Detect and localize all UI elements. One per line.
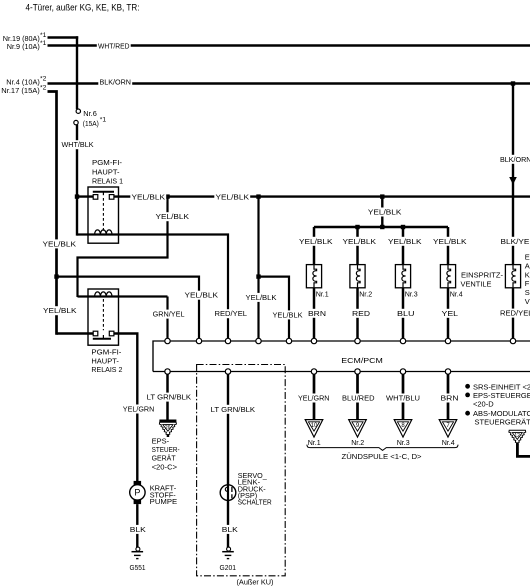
relay 2 coil winding	[95, 292, 112, 297]
label RED/YEL relay1 coil	[213, 309, 248, 318]
injector EINSPRITZVENTIL Nr.2	[350, 265, 365, 288]
svg-text:K: K	[525, 270, 530, 279]
svg-text:WHT/BLK: WHT/BLK	[62, 140, 94, 149]
wire from fuse Nr.19 to fuse Nr.6 feed	[48, 36, 79, 38]
svg-text:STEUERGERÄT <4: STEUERGERÄT <4	[475, 417, 530, 426]
svg-text:F: F	[525, 279, 530, 288]
label BLK/ORN on right drop	[499, 155, 530, 164]
wire YEL/BLK branch to ECM at x=289	[259, 277, 290, 341]
label LT GRN/BLK to EPS	[145, 393, 192, 402]
svg-text:LT GRN/BLK: LT GRN/BLK	[147, 393, 192, 402]
relay 1 armature dashed link	[102, 198, 104, 232]
label BLU injector 3	[396, 309, 416, 318]
junction branch at (258,277)	[256, 274, 260, 278]
svg-text:S: S	[525, 288, 530, 297]
svg-text:WHT/BLU: WHT/BLU	[386, 394, 420, 403]
svg-text:HAUPT-: HAUPT-	[91, 356, 119, 365]
junction WHT/BLK feed to relay 1 contact	[75, 194, 79, 198]
wire BLU injector Nr.3 to ECM	[402, 288, 405, 341]
svg-text:YEL/GRN: YEL/GRN	[298, 394, 330, 403]
svg-text:SCHALTER: SCHALTER	[238, 498, 273, 507]
wire WHT/BLK from fuse Nr.6 to PGM-FI relay 1	[76, 125, 78, 236]
wire from fuse Nr.17 down left side (YEL/BLK)	[48, 92, 57, 335]
label (Außer KU)	[233, 578, 277, 588]
svg-text:G551: G551	[130, 563, 146, 572]
label YEL/BLK x289	[271, 310, 303, 319]
label YEL/BLK x199	[183, 291, 219, 300]
relay 1 coil winding	[95, 230, 112, 235]
injector EINSPRITZVENTIL far right	[505, 265, 520, 288]
wire zigzag from YEL/BLK main down-left to relay 2 coil	[78, 197, 168, 297]
svg-text:GRN/YEL: GRN/YEL	[153, 310, 185, 319]
svg-text:RED/YEL: RED/YEL	[215, 309, 248, 318]
wire from triangle 12 to right edge	[517, 443, 530, 456]
svg-text:BLU/RED: BLU/RED	[342, 394, 375, 403]
svg-text:*2: *2	[40, 76, 47, 83]
ground G551	[136, 547, 138, 549]
fuse Nr.6 (15A) vertical feed wire upper	[76, 36, 78, 109]
svg-text:YEL/BLK: YEL/BLK	[433, 237, 467, 246]
wire YEL/BLK main line from relay 1 contact output to right edge	[114, 195, 530, 197]
svg-text:Nr.4: Nr.4	[442, 438, 455, 447]
relay 2 contact bar	[93, 338, 111, 340]
injector EINSPRITZVENTIL Nr.1	[306, 265, 321, 288]
label WHT/BLU ignition 3	[385, 394, 421, 403]
label BLK/ORN	[98, 78, 132, 87]
junction YEL/BLK main at x=258	[256, 194, 260, 198]
relay PGM-FI-HAUPT-RELAIS 1 box	[88, 187, 119, 243]
svg-text:YEL/BLK: YEL/BLK	[246, 293, 277, 302]
junction YEL/BLK main at injector feed	[380, 194, 384, 198]
svg-text:YEL/BLK: YEL/BLK	[132, 193, 166, 202]
svg-text:P: P	[134, 488, 140, 498]
svg-text:RELAIS 2: RELAIS 2	[91, 365, 122, 374]
svg-text:YEL/BLK: YEL/BLK	[299, 237, 333, 246]
bullet ABS-MODULATOR/STEUERGERÄT	[465, 411, 470, 416]
fuel pump KRAFTSTOFFPUMPE	[134, 481, 142, 485]
label GRN/YEL	[151, 310, 185, 319]
svg-text:<20-D: <20-D	[473, 399, 494, 408]
wire relay 1 coil row to ECM RED/YEL drop	[77, 235, 228, 342]
svg-text:YEL/BLK: YEL/BLK	[43, 306, 77, 315]
svg-text:10: 10	[311, 423, 318, 429]
svg-text:Nr.2: Nr.2	[359, 289, 372, 298]
wire YEL/BLK to injector Nr.4	[447, 227, 450, 265]
svg-text:BLK/YEL: BLK/YEL	[501, 237, 530, 246]
svg-text:(15A): (15A)	[83, 119, 99, 128]
label YEL/BLK on left vertical	[41, 239, 77, 248]
svg-text:(Außer KU): (Außer KU)	[237, 578, 274, 587]
wire YEL/BLK to injector Nr.2	[356, 227, 359, 265]
label BLK pump ground wire	[129, 525, 147, 534]
svg-text:YEL/BLK: YEL/BLK	[343, 237, 377, 246]
svg-text:YEL/GRN: YEL/GRN	[123, 405, 155, 414]
svg-text:BRN: BRN	[308, 309, 326, 318]
ECM bottom row pin circles	[165, 369, 170, 374]
label RED/YEL on right drop	[499, 309, 530, 318]
bullet SRS-EINHEIT	[465, 384, 470, 389]
svg-text:Nr.9 (10A): Nr.9 (10A)	[7, 42, 40, 51]
wire YEL injector Nr.4 to ECM	[447, 288, 450, 341]
wire BRN injector Nr.1 to ECM	[313, 288, 316, 341]
svg-text:ZÜNDSPULE <1-C, D>: ZÜNDSPULE <1-C, D>	[342, 452, 423, 461]
ECM/PCM box	[153, 341, 530, 372]
brace ZÜNDSPULE group	[307, 445, 458, 451]
label WHT/BLK	[60, 140, 94, 149]
label YEL/BLK x258	[244, 293, 277, 302]
wire YEL/BLK injector feed drop	[381, 197, 383, 227]
junction on left YEL/BLK vertical	[54, 274, 58, 278]
wire ECM to ignition coil Nr.2	[356, 372, 359, 420]
label BRN ignition 4	[439, 394, 459, 403]
svg-text:Nr.4 (10A): Nr.4 (10A)	[6, 77, 40, 86]
svg-text:RED/YEL: RED/YEL	[500, 309, 530, 318]
PSP servo switch symbol	[220, 485, 236, 501]
label YEL/GRN ignition 1	[297, 394, 331, 403]
EPS connector triangle 26	[159, 419, 176, 422]
label BLK PSP ground wire	[221, 525, 239, 534]
label WHT/RED	[97, 41, 131, 50]
svg-text:YEL/BLK: YEL/BLK	[156, 212, 190, 221]
wire ECM to ignition coil Nr.3	[402, 372, 405, 420]
svg-text:HAUPT-: HAUPT-	[92, 167, 120, 176]
ignition coil connector triangle 7 Nr.4	[439, 420, 457, 438]
label YEL injector 4	[440, 309, 459, 318]
svg-text:G201: G201	[220, 563, 237, 572]
svg-text:4-Türer, außer KG, KE, KB, TR:: 4-Türer, außer KG, KE, KB, TR:	[26, 2, 140, 12]
svg-text:Nr.17 (15A): Nr.17 (15A)	[1, 86, 40, 95]
relay 2 contact terminal squares	[93, 331, 98, 336]
svg-text:*1: *1	[100, 116, 107, 123]
wire YEL/BLK drop to ECM at x=258	[257, 197, 259, 341]
svg-text:Nr.1: Nr.1	[316, 289, 329, 298]
wire relay 2 coil row	[78, 295, 168, 297]
junction BLK/ORN to right drop	[511, 81, 515, 85]
label YEL/GRN to pump	[122, 405, 156, 414]
svg-text:*1: *1	[40, 40, 47, 47]
relay 1 contact bar	[93, 191, 114, 193]
svg-text:12: 12	[514, 433, 520, 439]
svg-text:ECM/PCM: ECM/PCM	[341, 356, 383, 365]
relay PGM-FI-HAUPT-RELAIS 2 box	[88, 289, 119, 345]
label YEL/BLK on main line	[214, 193, 250, 202]
wire RED injector Nr.2 to ECM	[356, 288, 359, 341]
wire YEL/BLK branch from left vertical to ECM	[57, 277, 200, 341]
injector EINSPRITZVENTIL Nr.3	[395, 265, 410, 288]
ignition coil connector triangle 8 Nr.3	[394, 420, 412, 438]
wire YEL/BLK into relay 2 contact	[57, 332, 94, 334]
svg-text:E: E	[525, 253, 530, 262]
svg-text:YEL/BLK: YEL/BLK	[388, 237, 422, 246]
ground G201	[227, 547, 229, 549]
svg-text:YEL/BLK: YEL/BLK	[368, 208, 402, 217]
wire LT GRN/BLK ECM to EPS triangle	[166, 372, 169, 421]
svg-text:YEL: YEL	[442, 309, 459, 318]
label BLU/RED ignition 2	[341, 394, 376, 403]
svg-text:BLK: BLK	[222, 525, 238, 534]
svg-text:RED: RED	[352, 309, 371, 318]
svg-text:*1: *1	[40, 32, 47, 39]
label YEL/BLK on relay2 contact feed	[42, 306, 78, 315]
svg-text:YEL/BLK: YEL/BLK	[273, 310, 303, 319]
arrow direction marker on right drop	[510, 178, 516, 184]
relay 2 armature dashed link	[102, 299, 104, 330]
wire YEL/BLK to injector Nr.1	[313, 227, 316, 265]
wire injector supply bus	[314, 226, 448, 229]
svg-text:Nr.3: Nr.3	[405, 289, 418, 298]
svg-text:BRN: BRN	[441, 394, 459, 403]
wire LT GRN/BLK ECM to PSP switch	[227, 372, 229, 486]
svg-text:EINSPRITZ-: EINSPRITZ-	[461, 271, 504, 280]
label YEL/BLK injector feed	[367, 208, 403, 217]
label BLK/YEL	[499, 237, 530, 246]
label YEL/BLK after relay 1	[130, 193, 166, 202]
connector triangle 12 to control units	[509, 430, 526, 443]
svg-text:BLK/ORN: BLK/ORN	[100, 78, 132, 87]
dash-dot option frame (Außer KU)	[197, 365, 286, 576]
svg-text:*2: *2	[40, 84, 47, 91]
relay 1 contact terminal squares	[93, 195, 98, 200]
fuse Nr.6 symbol	[76, 109, 80, 113]
wire relay 1 contact feed at junction	[77, 195, 93, 197]
svg-text:PUMPE: PUMPE	[150, 497, 178, 506]
bullet EPS-STEUERGERÄT 20-D	[465, 393, 470, 398]
ignition coil connector triangle 10 Nr.1	[305, 420, 323, 438]
svg-text:BLK: BLK	[130, 525, 146, 534]
svg-text:V: V	[525, 297, 530, 306]
wire ECM to ignition coil Nr.4	[447, 372, 450, 420]
labels YEL/BLK above injectors	[298, 237, 334, 246]
svg-text:Nr.1: Nr.1	[308, 438, 321, 447]
wire WHT/RED from fuse Nr.9 to right edge	[48, 44, 530, 46]
svg-text:Nr.2: Nr.2	[351, 438, 364, 447]
svg-text:YEL/BLK: YEL/BLK	[43, 239, 77, 248]
ignition coil connector triangle 9 Nr.2	[349, 420, 367, 438]
junction YEL/BLK main at relay 2 coil drop	[165, 194, 169, 198]
svg-text:PGM-FI-: PGM-FI-	[91, 348, 122, 357]
svg-text:Nr.6: Nr.6	[83, 109, 97, 118]
svg-text:RELAIS 1: RELAIS 1	[92, 177, 123, 186]
svg-text:<20-C>: <20-C>	[152, 462, 178, 471]
svg-text:YEL/BLK: YEL/BLK	[185, 291, 219, 300]
junction injector bus taps	[355, 225, 359, 229]
wire YEL/BLK to injector Nr.3	[402, 227, 405, 265]
svg-text:26: 26	[165, 425, 171, 431]
wire BLK/ORN - BLK/YEL right drop to ECM	[512, 84, 514, 342]
svg-text:VENTILE: VENTILE	[461, 280, 492, 289]
svg-text:YEL/BLK: YEL/BLK	[216, 193, 250, 202]
label YEL/BLK on relay2-coil drop	[154, 212, 190, 221]
wire BLK/ORN from fuse Nr.4 to right edge	[48, 82, 530, 84]
label BRN injector 1	[307, 309, 327, 318]
injector EINSPRITZVENTIL Nr.4	[440, 265, 455, 288]
svg-text:PGM-FI-: PGM-FI-	[92, 158, 123, 167]
wire BLK PSP switch to ground	[227, 500, 229, 548]
wire GRN/YEL relay 2 coil output to ECM	[166, 297, 168, 342]
label RED injector 2	[351, 309, 371, 318]
wire BLK fuel pump to ground	[136, 504, 138, 548]
label LT GRN/BLK to PSP	[209, 405, 256, 414]
svg-text:A: A	[525, 261, 530, 270]
svg-text:BLK/ORN: BLK/ORN	[500, 155, 530, 164]
svg-text:Nr.3: Nr.3	[397, 438, 410, 447]
wire relay 2 contact output to fuel pump	[114, 334, 137, 482]
svg-text:LT GRN/BLK: LT GRN/BLK	[211, 405, 256, 414]
svg-text:WHT/RED: WHT/RED	[98, 41, 130, 50]
svg-text:BLU: BLU	[397, 309, 415, 318]
ECM top row pin circles	[165, 338, 170, 343]
wire ECM to ignition coil Nr.1	[313, 372, 316, 420]
svg-text:Nr.4: Nr.4	[450, 289, 463, 298]
